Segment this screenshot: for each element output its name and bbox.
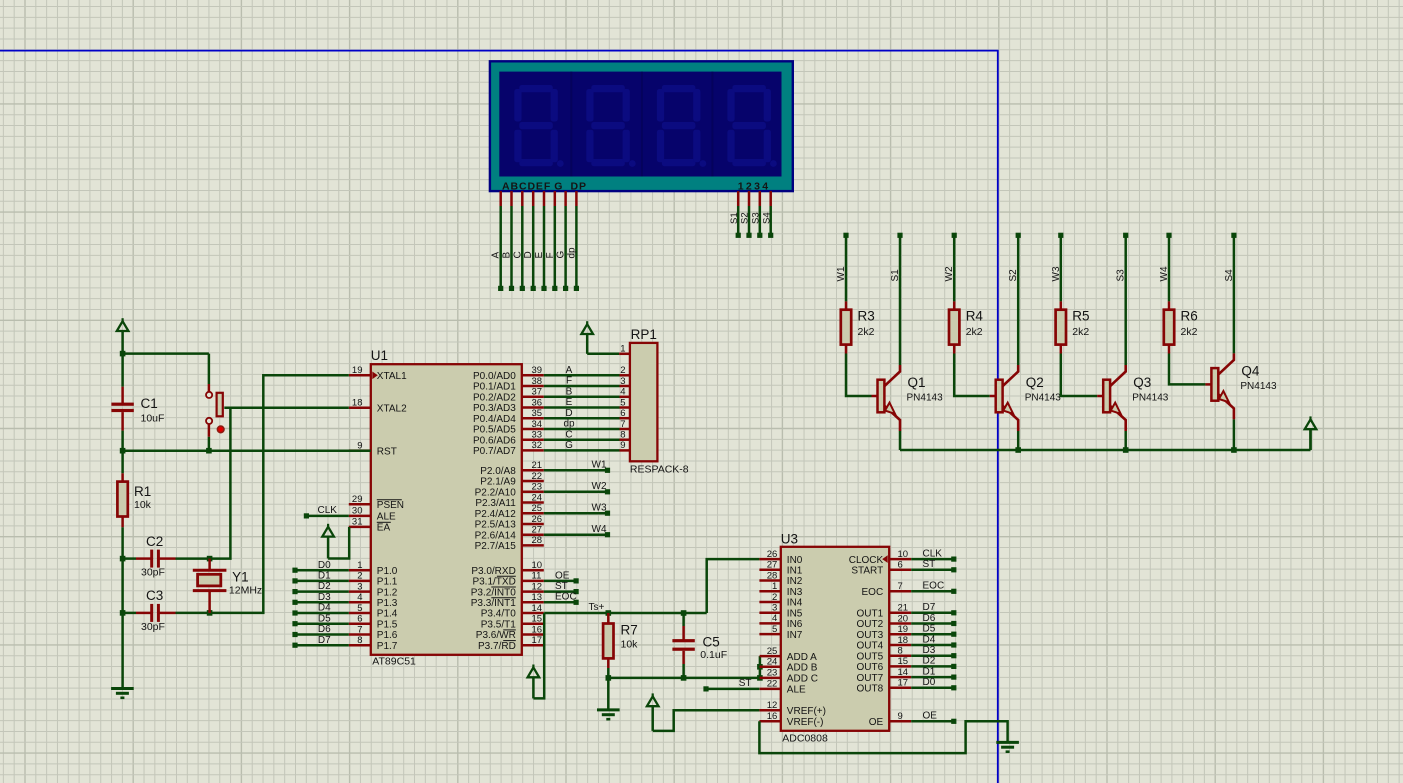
svg-text:IN4: IN4 — [787, 598, 803, 609]
svg-text:18: 18 — [352, 398, 363, 409]
node W1 terminal (top) — [843, 233, 848, 238]
svg-text:PN4143: PN4143 — [1132, 393, 1169, 404]
svg-text:10: 10 — [532, 560, 543, 571]
junction (C2/Y1 top) — [207, 556, 213, 562]
svg-text:P3.6/WR: P3.6/WR — [476, 630, 516, 641]
svg-text:1: 1 — [772, 581, 777, 592]
svg-text:12: 12 — [532, 581, 543, 592]
svg-text:3: 3 — [357, 581, 362, 592]
svg-text:10: 10 — [898, 549, 909, 560]
node D2 (U3 OUT6) wire — [911, 665, 954, 668]
svg-text:D0: D0 — [923, 677, 936, 688]
svg-text:RP1: RP1 — [631, 327, 657, 342]
svg-text:P1.1: P1.1 — [377, 577, 398, 588]
display segment pin B wire — [510, 191, 513, 206]
svg-text:8: 8 — [357, 635, 362, 646]
junction (ADD B) — [757, 664, 763, 670]
wire Q3 emitter to rail — [1124, 431, 1127, 450]
svg-text:P3.1/TXD: P3.1/TXD — [472, 577, 515, 588]
display segment pin F wire — [554, 191, 557, 206]
svg-text:7: 7 — [898, 581, 903, 592]
svg-text:EA: EA — [377, 523, 391, 534]
svg-text:C1: C1 — [141, 396, 158, 411]
svg-text:A: A — [491, 252, 502, 259]
node D0 (U3 OUT8) wire — [911, 687, 954, 690]
IC U1 AT89C51 body — [371, 364, 522, 655]
svg-text:G: G — [565, 440, 573, 451]
wire RP1 pin 1 — [587, 353, 619, 356]
svg-text:RST: RST — [377, 446, 397, 457]
node D3 terminal — [295, 601, 349, 604]
svg-text:D: D — [523, 251, 534, 258]
4-digit 7-segment display — [490, 61, 793, 191]
capacitor C1 — [121, 354, 124, 387]
svg-text:ALE: ALE — [377, 512, 396, 523]
wire P0.1 to RP1 (net F) — [544, 385, 620, 388]
power symbol (RP1 pin1) — [586, 321, 588, 326]
svg-text:32: 32 — [532, 440, 543, 451]
wire S2 column — [1017, 238, 1020, 366]
svg-text:5: 5 — [357, 603, 362, 614]
transistor Q2 PN4143 — [990, 395, 996, 398]
display segment pin A wire — [499, 191, 502, 206]
svg-text:R6: R6 — [1181, 308, 1198, 323]
U1 left pins with numbers — [349, 374, 371, 377]
svg-text:P0.2/AD2: P0.2/AD2 — [473, 393, 516, 404]
display digit-select pin S4 wire — [769, 191, 772, 206]
crystal Y1 — [208, 559, 211, 571]
wire P0.7 to RP1 (net G) — [544, 449, 620, 452]
svg-text:17: 17 — [898, 678, 909, 689]
svg-text:15: 15 — [898, 656, 909, 667]
svg-text:26: 26 — [532, 514, 543, 525]
svg-text:DP: DP — [571, 180, 587, 192]
svg-text:8: 8 — [898, 646, 903, 657]
svg-text:7: 7 — [357, 624, 362, 635]
svg-text:15: 15 — [532, 614, 543, 625]
wire EA to power — [328, 527, 349, 559]
svg-text:P1.3: P1.3 — [377, 598, 398, 609]
node D4 (U3 OUT4) wire — [911, 644, 954, 647]
svg-text:D5: D5 — [318, 613, 331, 624]
junction (C5 bottom) — [681, 675, 687, 681]
svg-text:2k2: 2k2 — [858, 326, 875, 338]
wire R5 to Q3 base — [1061, 354, 1097, 397]
svg-text:36: 36 — [532, 397, 543, 408]
svg-text:D2: D2 — [318, 581, 331, 592]
svg-text:R3: R3 — [858, 308, 875, 323]
wire Ts+ net — [544, 612, 707, 615]
svg-text:P0.3/AD3: P0.3/AD3 — [473, 403, 516, 414]
svg-text:R1: R1 — [134, 484, 151, 499]
svg-text:13: 13 — [532, 592, 543, 603]
display segment pin G wire — [564, 191, 567, 206]
svg-text:E: E — [534, 252, 545, 259]
node D7 (U3 OUT1) wire — [911, 612, 954, 615]
transistor Q1 PN4143 — [872, 395, 878, 398]
node ST (ALE of U3) — [706, 688, 759, 691]
svg-text:D4: D4 — [923, 634, 936, 645]
power symbol (below U1) — [532, 665, 534, 670]
svg-text:U3: U3 — [781, 532, 798, 547]
junction (rail S2) — [1015, 447, 1021, 453]
wire VCC row to button — [123, 352, 209, 355]
svg-text:2: 2 — [357, 571, 362, 582]
svg-text:P0.1/AD1: P0.1/AD1 — [473, 382, 516, 393]
svg-text:26: 26 — [767, 549, 778, 560]
display segment pin D wire — [532, 191, 535, 206]
wire P0.4 to RP1 (net D) — [544, 417, 620, 420]
svg-text:IN1: IN1 — [787, 566, 803, 577]
svg-text:IN3: IN3 — [787, 587, 803, 598]
svg-text:1: 1 — [357, 560, 362, 571]
svg-text:19: 19 — [898, 624, 909, 635]
wire P3.4-P3.7 common to power — [533, 613, 544, 698]
svg-text:16: 16 — [532, 624, 543, 635]
node S4 terminal (top) — [1231, 233, 1236, 238]
node S2 terminal (top) — [1016, 233, 1021, 238]
junction (rail S4) — [1231, 447, 1237, 453]
svg-text:OE: OE — [869, 717, 884, 728]
svg-text:38: 38 — [532, 376, 543, 387]
svg-text:P0.7/AD7: P0.7/AD7 — [473, 446, 516, 457]
svg-text:Q2: Q2 — [1026, 375, 1044, 390]
svg-text:P1.2: P1.2 — [377, 587, 398, 598]
wire P0.5 to RP1 (net dp) — [544, 428, 620, 431]
ground (below R7) — [597, 708, 620, 711]
svg-text:27: 27 — [767, 560, 778, 571]
svg-text:9: 9 — [620, 440, 625, 451]
wire IN0 net — [707, 559, 760, 613]
svg-text:C: C — [565, 429, 572, 440]
capacitor C5 — [682, 613, 685, 626]
svg-text:P3.0/RXD: P3.0/RXD — [471, 566, 515, 577]
display digit-select pin S1 wire — [737, 191, 740, 206]
wire W3 column — [1060, 238, 1063, 302]
U3 left pins with numbers — [759, 558, 780, 561]
svg-text:PN4143: PN4143 — [1025, 393, 1062, 404]
transistor Q4 PN4143 — [1205, 383, 1211, 386]
power symbol VCC (top-left) — [121, 318, 123, 323]
svg-text:D4: D4 — [318, 603, 331, 614]
svg-text:OUT4: OUT4 — [857, 641, 884, 652]
svg-text:P0.6/AD6: P0.6/AD6 — [473, 435, 516, 446]
svg-text:9: 9 — [898, 711, 903, 722]
svg-text:IN7: IN7 — [787, 630, 803, 641]
svg-text:P1.6: P1.6 — [377, 630, 398, 641]
display digit-select pin S2 wire — [748, 191, 751, 206]
power symbol (VREF+) — [652, 693, 654, 698]
svg-text:P1.7: P1.7 — [377, 641, 398, 652]
svg-text:8: 8 — [620, 430, 625, 441]
svg-text:D0: D0 — [318, 560, 331, 571]
wire P0.0 to RP1 (net A) — [544, 374, 620, 377]
svg-text:21: 21 — [898, 603, 909, 614]
wire Q1 emitter to rail — [899, 431, 902, 450]
svg-text:OUT6: OUT6 — [857, 662, 884, 673]
svg-text:P1.5: P1.5 — [377, 619, 398, 630]
junction (RST/R1) — [120, 448, 126, 454]
svg-text:ST: ST — [555, 581, 568, 592]
svg-text:ABCDEF: ABCDEF — [502, 180, 551, 192]
node S1 terminal (top) — [897, 233, 902, 238]
svg-text:D6: D6 — [318, 624, 331, 635]
resistor R1 — [121, 451, 124, 474]
svg-text:4: 4 — [772, 613, 777, 624]
svg-text:5: 5 — [772, 624, 777, 635]
node CLK (ALE wire) — [306, 515, 348, 518]
node ST (U3 START) wire — [911, 569, 954, 572]
svg-text:6: 6 — [898, 560, 903, 571]
wire R4 to Q2 base — [954, 354, 990, 397]
node D5 terminal — [295, 622, 349, 625]
svg-text:12: 12 — [767, 700, 778, 711]
svg-text:30pF: 30pF — [141, 621, 165, 633]
resistor R4 — [953, 301, 956, 309]
svg-text:EOC: EOC — [923, 581, 945, 592]
svg-text:P2.4/A12: P2.4/A12 — [475, 509, 517, 520]
resistor R3 — [845, 301, 848, 309]
svg-text:CLK: CLK — [318, 505, 338, 516]
svg-text:24: 24 — [532, 492, 543, 503]
svg-text:S4: S4 — [761, 212, 772, 224]
svg-text:S2: S2 — [740, 212, 751, 224]
svg-text:10k: 10k — [134, 499, 152, 511]
svg-text:2: 2 — [772, 592, 777, 603]
wire S4 column — [1233, 238, 1236, 354]
svg-text:VREF(-): VREF(-) — [787, 717, 824, 728]
svg-text:dp: dp — [563, 419, 575, 430]
node W3 (P2.4) — [544, 512, 608, 515]
svg-text:20: 20 — [898, 613, 909, 624]
svg-text:IN6: IN6 — [787, 619, 803, 630]
wire VREF- to ground — [759, 721, 1007, 753]
svg-text:C: C — [512, 251, 523, 258]
svg-text:C5: C5 — [703, 635, 720, 650]
svg-text:P1.0: P1.0 — [377, 566, 398, 577]
node W3 terminal (top) — [1058, 233, 1063, 238]
node D1 (U3 OUT7) wire — [911, 676, 954, 679]
svg-text:1: 1 — [620, 343, 625, 354]
svg-text:OUT7: OUT7 — [857, 673, 884, 684]
svg-text:P2.5/A13: P2.5/A13 — [475, 520, 517, 531]
svg-text:ADD A: ADD A — [787, 652, 817, 663]
svg-text:D: D — [565, 408, 572, 419]
svg-text:4: 4 — [620, 387, 625, 398]
wire XTAL1 net — [210, 375, 349, 613]
node W2 (P2.2) — [544, 491, 608, 494]
svg-text:D3: D3 — [923, 645, 936, 656]
svg-text:C2: C2 — [146, 534, 163, 549]
wire R6 to Q4 base — [1169, 354, 1205, 385]
capacitor C3 — [123, 612, 136, 615]
svg-text:22: 22 — [767, 679, 778, 690]
svg-text:P0.5/AD5: P0.5/AD5 — [473, 425, 516, 436]
svg-text:E: E — [566, 397, 573, 408]
wire P0.2 to RP1 (net B) — [544, 396, 620, 399]
svg-text:D2: D2 — [923, 656, 936, 667]
svg-text:27: 27 — [532, 525, 543, 536]
node ST (P3.2) — [544, 590, 576, 593]
svg-text:F: F — [545, 252, 556, 258]
svg-text:ST: ST — [923, 559, 936, 570]
svg-text:22: 22 — [532, 471, 543, 482]
svg-text:P2.6/A14: P2.6/A14 — [475, 530, 517, 541]
svg-text:P3.7/RD: P3.7/RD — [478, 641, 516, 652]
svg-text:4: 4 — [357, 592, 362, 603]
svg-text:CLK: CLK — [923, 548, 943, 559]
IC U3 ADC0808 body — [781, 547, 889, 731]
node W2 terminal (top) — [952, 233, 957, 238]
svg-text:Ts+: Ts+ — [589, 602, 605, 613]
capacitor C2 — [123, 557, 136, 560]
junction (R1/C2) — [120, 556, 126, 562]
svg-text:14: 14 — [532, 603, 543, 614]
svg-text:OUT3: OUT3 — [857, 630, 884, 641]
svg-text:2k2: 2k2 — [1181, 326, 1198, 338]
svg-text:RESPACK-8: RESPACK-8 — [630, 463, 689, 475]
svg-text:21: 21 — [532, 460, 543, 471]
node S3 terminal (top) — [1123, 233, 1128, 238]
svg-text:G: G — [554, 180, 562, 192]
svg-text:29: 29 — [352, 494, 363, 505]
node D0 terminal — [295, 569, 349, 572]
svg-text:ADD B: ADD B — [787, 663, 818, 674]
node D6 terminal — [295, 633, 349, 636]
svg-text:Q4: Q4 — [1241, 363, 1260, 378]
svg-text:P2.3/A11: P2.3/A11 — [475, 498, 516, 509]
svg-text:P2.1/A9: P2.1/A9 — [480, 477, 516, 488]
svg-text:1234: 1234 — [738, 180, 771, 192]
svg-text:EOC: EOC — [555, 592, 577, 603]
svg-text:P0.0/AD0: P0.0/AD0 — [473, 371, 516, 382]
sheet border (blue) — [0, 51, 998, 783]
svg-text:28: 28 — [532, 535, 543, 546]
svg-text:28: 28 — [767, 570, 778, 581]
node EOC (U3 EOC) wire — [911, 590, 954, 593]
node W1 (P2.0) — [544, 469, 608, 472]
svg-text:P2.0/A8: P2.0/A8 — [480, 466, 516, 477]
svg-text:R4: R4 — [966, 308, 984, 323]
svg-text:2k2: 2k2 — [966, 326, 983, 338]
svg-text:31: 31 — [352, 517, 363, 528]
svg-text:25: 25 — [532, 503, 543, 514]
wire left rail (VCC to GND) — [121, 559, 124, 689]
svg-text:OE: OE — [923, 711, 938, 722]
wire VREF+ net — [653, 710, 760, 731]
svg-text:IN2: IN2 — [787, 576, 803, 587]
svg-text:23: 23 — [532, 482, 543, 493]
svg-text:P3.5/T1: P3.5/T1 — [481, 619, 516, 630]
svg-text:11: 11 — [532, 571, 542, 582]
svg-text:W1: W1 — [592, 460, 607, 471]
svg-text:17: 17 — [532, 635, 543, 646]
svg-text:D5: D5 — [923, 624, 936, 635]
svg-text:W4: W4 — [592, 524, 607, 535]
svg-text:ALE: ALE — [787, 685, 806, 696]
svg-text:D3: D3 — [318, 592, 331, 603]
svg-text:OUT2: OUT2 — [857, 619, 884, 630]
svg-text:2k2: 2k2 — [1072, 326, 1089, 338]
svg-text:OUT8: OUT8 — [857, 684, 884, 695]
svg-text:B: B — [566, 386, 573, 397]
node D6 (U3 OUT2) wire — [911, 622, 954, 625]
svg-text:6: 6 — [620, 408, 625, 419]
svg-text:ADC0808: ADC0808 — [782, 733, 828, 745]
ground (bottom-left) — [111, 687, 134, 690]
svg-text:D6: D6 — [923, 613, 936, 624]
svg-text:34: 34 — [532, 419, 543, 430]
svg-text:10k: 10k — [621, 638, 639, 650]
wire ADD A/B/C tie — [759, 656, 762, 678]
svg-text:B: B — [502, 252, 513, 259]
node D4 terminal — [295, 612, 349, 615]
svg-text:VREF(+): VREF(+) — [787, 706, 826, 717]
junction (C3 left) — [120, 610, 126, 616]
svg-text:0.1uF: 0.1uF — [700, 649, 727, 661]
svg-text:P1.4: P1.4 — [377, 609, 398, 620]
svg-text:PSEN: PSEN — [377, 500, 404, 511]
svg-text:W2: W2 — [592, 481, 607, 492]
svg-text:18: 18 — [898, 635, 909, 646]
svg-text:30: 30 — [352, 506, 363, 517]
svg-text:7: 7 — [620, 419, 625, 430]
svg-text:P2.2/A10: P2.2/A10 — [475, 488, 517, 499]
junction (button/RST) — [206, 448, 212, 454]
svg-text:37: 37 — [532, 387, 543, 398]
resistor R6 — [1168, 301, 1171, 309]
svg-text:3: 3 — [620, 376, 625, 387]
svg-text:IN0: IN0 — [787, 555, 803, 566]
wire RST net — [123, 449, 371, 452]
svg-text:IN5: IN5 — [787, 608, 803, 619]
svg-text:6: 6 — [357, 614, 362, 625]
svg-text:Q1: Q1 — [908, 375, 926, 390]
resistor pack RP1 RESPACK-8 body — [630, 343, 658, 461]
svg-text:C3: C3 — [146, 588, 163, 603]
svg-text:OE: OE — [555, 570, 570, 581]
display digit-select pin S3 wire — [759, 191, 762, 206]
junction (C3/Y1 bottom) — [207, 610, 213, 616]
svg-text:D1: D1 — [923, 666, 936, 677]
wire S3 column — [1124, 238, 1127, 366]
svg-text:PN4143: PN4143 — [1240, 381, 1277, 392]
svg-text:ST: ST — [739, 678, 752, 689]
svg-text:30pF: 30pF — [141, 567, 165, 579]
svg-text:D7: D7 — [923, 602, 936, 613]
svg-text:S1: S1 — [729, 212, 740, 224]
svg-text:Q3: Q3 — [1133, 375, 1151, 390]
transistor Q3 PN4143 — [1097, 395, 1103, 398]
svg-text:R7: R7 — [621, 622, 638, 637]
svg-text:F: F — [566, 376, 572, 387]
resistor R5 — [1060, 301, 1063, 309]
svg-text:P3.2/INT0: P3.2/INT0 — [471, 587, 516, 598]
power symbol (EA) — [327, 524, 329, 529]
node W4 terminal (top) — [1166, 233, 1171, 238]
svg-text:A: A — [566, 365, 573, 376]
svg-text:24: 24 — [767, 657, 778, 668]
wire R7 to ground — [607, 678, 610, 710]
svg-text:P3.3/INT1: P3.3/INT1 — [471, 598, 516, 609]
svg-text:2: 2 — [620, 365, 625, 376]
svg-text:START: START — [851, 566, 883, 577]
svg-text:dp: dp — [566, 247, 577, 259]
svg-text:CLOCK: CLOCK — [849, 555, 884, 566]
svg-text:D1: D1 — [318, 571, 331, 582]
svg-text:23: 23 — [767, 668, 778, 679]
junction (ADD C) — [757, 675, 763, 681]
